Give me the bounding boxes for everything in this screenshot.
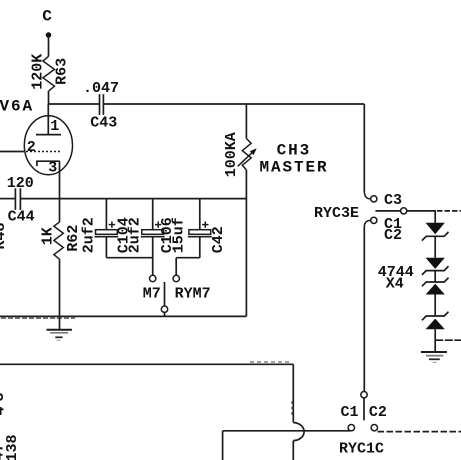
svg-text:3: 3 <box>48 159 57 176</box>
svg-text:RYC1C: RYC1C <box>339 441 384 458</box>
capacitor C43 <box>83 80 119 132</box>
wire <box>434 211 436 223</box>
wire <box>106 257 152 259</box>
svg-text:RYC3E: RYC3E <box>314 205 359 222</box>
triode V6A <box>0 97 73 198</box>
svg-text:C42: C42 <box>210 226 227 253</box>
wire <box>434 271 436 282</box>
resistor R63 <box>30 54 71 91</box>
zener diode D1 <box>422 223 449 241</box>
svg-text:V6A: V6A <box>0 97 34 115</box>
svg-text:1: 1 <box>50 118 59 135</box>
svg-text:C: C <box>42 7 54 25</box>
relay RYC3E <box>314 192 407 245</box>
svg-text:47: 47 <box>0 443 7 460</box>
svg-text:R62: R62 <box>65 225 82 252</box>
svg-text:C3: C3 <box>384 192 402 209</box>
wire <box>363 227 365 391</box>
svg-text:4: 4 <box>0 406 8 415</box>
terminal RYM7 <box>173 275 211 302</box>
svg-text:C2: C2 <box>384 227 402 244</box>
wire <box>407 210 436 212</box>
zener diode D4 <box>422 312 449 330</box>
wire <box>20 198 246 200</box>
wire <box>222 431 224 460</box>
svg-text:15uf: 15uf <box>171 217 188 253</box>
svg-text:CH3: CH3 <box>277 141 312 159</box>
svg-text:RYM7: RYM7 <box>175 286 211 303</box>
wire <box>434 329 436 351</box>
svg-text:2uf2: 2uf2 <box>80 217 97 253</box>
wire <box>223 430 350 432</box>
svg-text:R48: R48 <box>0 222 9 249</box>
zener diode D3 <box>422 278 449 295</box>
svg-text:120K: 120K <box>30 54 47 90</box>
wire <box>0 315 246 317</box>
ground <box>47 316 72 340</box>
wire <box>0 198 15 200</box>
svg-text:1K: 1K <box>39 227 56 245</box>
wire hop <box>293 423 304 441</box>
wire <box>176 257 200 259</box>
wire <box>292 441 294 460</box>
wire <box>435 339 461 341</box>
svg-text:R63: R63 <box>54 58 71 85</box>
wire <box>363 104 365 192</box>
svg-text:.047: .047 <box>83 80 119 97</box>
wire <box>48 37 50 57</box>
wire <box>291 401 293 416</box>
node C <box>42 7 54 38</box>
resistor R62 <box>39 199 82 317</box>
wire <box>103 103 364 105</box>
svg-text:M7: M7 <box>143 286 161 303</box>
ground <box>421 352 447 362</box>
switch pole M7 <box>161 282 167 317</box>
wire <box>437 210 461 212</box>
wire <box>49 103 100 105</box>
svg-text:2: 2 <box>27 139 36 156</box>
svg-text:2uf2: 2uf2 <box>127 217 144 253</box>
svg-text:3: 3 <box>0 392 8 401</box>
svg-text:C1: C1 <box>341 404 359 421</box>
wire <box>175 258 177 276</box>
terminal M7 <box>143 275 161 302</box>
wire <box>434 295 436 317</box>
wire <box>378 431 461 433</box>
svg-text:X4: X4 <box>386 276 404 293</box>
wire <box>0 363 293 365</box>
wire <box>1 317 75 319</box>
wire <box>434 236 436 257</box>
capacitor C104 <box>80 199 132 258</box>
svg-text:100KA: 100KA <box>223 132 240 177</box>
svg-text:C2: C2 <box>369 404 387 421</box>
capacitor C106 <box>127 199 176 276</box>
svg-text:MASTER: MASTER <box>260 159 329 177</box>
label 4744 X4 <box>378 264 414 293</box>
wire <box>292 364 294 422</box>
wire <box>48 91 50 104</box>
svg-text:C44: C44 <box>8 208 35 225</box>
potentiometer CH3 MASTER 100KA <box>223 104 329 316</box>
zener diode D2 <box>422 258 449 275</box>
relay RYC1C <box>339 392 387 458</box>
wire <box>250 361 292 363</box>
svg-text:C43: C43 <box>90 114 117 131</box>
capacitor C42 <box>171 199 228 258</box>
capacitor C44 <box>7 175 35 226</box>
